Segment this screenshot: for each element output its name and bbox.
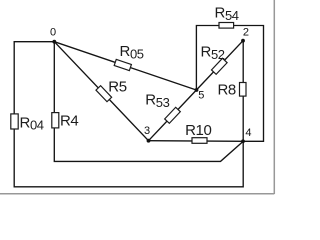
wire diagonal node0 to node3 through R5: [54, 42, 148, 141]
svg-text:R53: R53: [145, 91, 169, 109]
resistor R10: [192, 138, 207, 144]
resistor R4: [52, 113, 59, 128]
wire node5 up then right through R54 then down right side to node4: [196, 26, 263, 142]
node 2 junction dot: [241, 39, 245, 43]
svg-text:R8: R8: [218, 81, 236, 98]
wire node0 left-down loop to node4 via bottom: [14, 42, 243, 187]
svg-text:R52: R52: [201, 44, 225, 62]
svg-text:R54: R54: [215, 5, 239, 23]
resistor R53: [165, 107, 181, 123]
svg-text:0: 0: [50, 27, 56, 39]
svg-text:2: 2: [243, 26, 249, 38]
svg-text:R05: R05: [120, 43, 144, 61]
wire diagonal node3 to node5 through R53: [149, 90, 197, 141]
wire node0 down via R4 then right and diagonal up to node4: [54, 42, 243, 162]
svg-text:R5: R5: [108, 79, 126, 96]
svg-text:5: 5: [198, 90, 204, 102]
node 3 junction dot: [147, 139, 151, 143]
resistor R05: [114, 59, 131, 70]
resistor R54: [219, 23, 234, 29]
wire node3 to node4 horizontal through R10: [149, 140, 244, 143]
resistor R52: [211, 58, 227, 74]
svg-text:3: 3: [144, 125, 150, 137]
svg-text:R04: R04: [20, 114, 44, 132]
wire node2 down through R8 to node4: [242, 41, 244, 142]
node 4 junction dot: [241, 139, 245, 143]
resistor R04: [11, 114, 18, 129]
svg-text:R4: R4: [60, 112, 78, 129]
resistor R5: [96, 86, 112, 102]
node 5 junction dot: [195, 88, 199, 92]
resistor R8: [240, 83, 247, 97]
wire diagonal node5 to node2 through R52: [196, 41, 243, 90]
node 0 junction dot: [52, 40, 56, 44]
wire diagonal node0 to node5 through R05: [54, 42, 196, 90]
svg-text:4: 4: [245, 127, 251, 139]
frame border bottom: [0, 193, 274, 195]
frame border right: [273, 0, 275, 194]
svg-text:R10: R10: [185, 122, 211, 139]
